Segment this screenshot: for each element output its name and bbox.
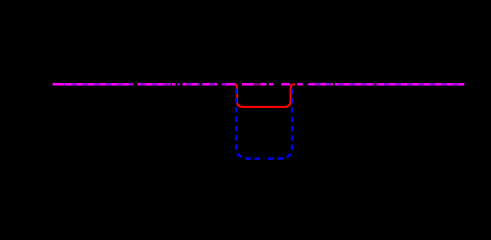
- flat level line: magenta dash alternation, left segment: [53, 83, 236, 85]
- magenta solid cap at left end of flat line: [53, 83, 64, 85]
- flat level line: magenta dash alternation, right segment: [297, 83, 464, 85]
- magenta cap before left well edge: [232, 83, 236, 85]
- blue dashed well curve: [236, 86, 264, 159]
- blue dashed well curve right half: [264, 86, 292, 159]
- red solid well curve U1: [235, 84, 295, 107]
- magenta dash-dot segments over the well region: [242, 83, 290, 85]
- flat level line: violet underlay, right segment: [297, 83, 464, 85]
- magenta solid cap at right end of flat line: [459, 83, 464, 85]
- flat level line: violet underlay, left segment: [53, 83, 236, 85]
- black breaks in the flat line: [133, 82, 376, 88]
